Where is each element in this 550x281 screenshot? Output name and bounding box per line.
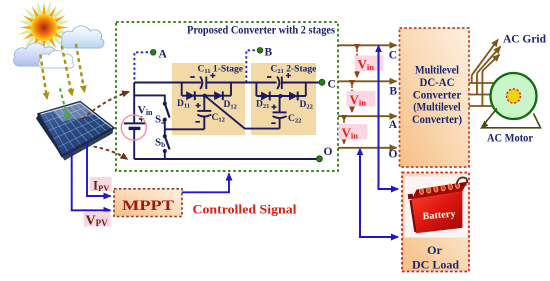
svg-text:B: B [389, 86, 397, 98]
Vin measure arrow B-A [351, 86, 353, 113]
multilevel DC-AC converter box [400, 28, 470, 167]
svg-text:B: B [265, 47, 273, 59]
wire left rail lower segment [133, 129, 135, 159]
wire top rail right segment to node C [282, 82, 322, 84]
blue link node C to battery [379, 47, 399, 190]
line A to inverter [338, 116, 398, 131]
svg-text:DC Load: DC Load [412, 258, 459, 272]
Vin measure arrow C-B [356, 50, 358, 78]
PV voltage wire VPV [72, 150, 111, 210]
svg-text:O: O [324, 146, 333, 158]
svg-text:Or: Or [427, 243, 442, 257]
svg-text:Converter: Converter [413, 89, 462, 101]
irradiance arrow green [60, 88, 68, 119]
wire midpoint to C12 bottom [165, 128, 205, 130]
node A [134, 49, 167, 82]
PV current wire IPV [87, 142, 111, 196]
sun [17, 1, 71, 55]
svg-text:AC Grid: AC Grid [503, 34, 547, 46]
svg-text:DC-AC: DC-AC [420, 77, 455, 89]
diode D22 [289, 92, 298, 101]
wire bottom rail [134, 158, 319, 160]
line O to inverter [338, 148, 398, 161]
capacitor C22 [271, 96, 286, 129]
svg-text:O: O [389, 149, 398, 161]
svg-text:Proposed Converter with 2 stag: Proposed Converter with 2 stages [187, 23, 335, 37]
dashed arrow PV to Vin [83, 92, 130, 119]
battery image [405, 177, 468, 238]
AC grid arrow 2 [477, 47, 501, 74]
wire stage1 diode branch [182, 95, 231, 97]
Vin measure arrow A-O [343, 121, 345, 144]
blue link node O to battery [360, 150, 398, 238]
wire left rail upper segment [133, 83, 135, 124]
svg-text:Converter): Converter) [412, 114, 462, 126]
label Vin 2 [347, 91, 376, 108]
solar panel PV [36, 102, 114, 161]
AC motor [491, 73, 537, 119]
wire stage2 bottom [245, 128, 280, 130]
wire stage1 left drop [181, 83, 183, 96]
node B [246, 47, 272, 82]
node C [319, 79, 336, 91]
switch Sb [163, 134, 170, 159]
wire diagonal M1 to stage2 bottom [205, 96, 245, 129]
label multilevel converter [412, 65, 462, 127]
label VPV [84, 212, 111, 229]
diode D11 [186, 91, 195, 100]
wire switch feed [134, 95, 165, 103]
source Vin battery symbol [121, 115, 146, 140]
wire stage1 right rise [230, 83, 232, 96]
svg-text:A: A [389, 119, 398, 131]
capacitor C21 [267, 73, 291, 89]
stage 2 background [251, 63, 316, 135]
AC grid arrow 1 [472, 40, 498, 76]
svg-text:C11 1-Stage: C11 1-Stage [198, 65, 243, 76]
capacitor C12 [196, 96, 212, 130]
sun ray arrow 1 [40, 55, 47, 99]
label IPV [90, 177, 112, 193]
svg-text:C: C [389, 50, 397, 62]
cloud right [61, 26, 104, 48]
svg-text:C: C [328, 79, 336, 91]
line C to inverter [338, 45, 397, 61]
wire Sa to Sb [164, 120, 166, 137]
svg-text:MPPT: MPPT [122, 198, 174, 214]
svg-text:AC Motor: AC Motor [487, 131, 534, 145]
svg-text:Controlled Signal: Controlled Signal [193, 203, 298, 217]
diode D21 [261, 92, 270, 101]
motor stand [480, 109, 541, 130]
label Vin 3 [339, 124, 368, 141]
wire top rail left segment [134, 82, 201, 84]
MPPT box [114, 189, 182, 217]
junction M1 [203, 94, 207, 98]
svg-text:C21 2-Stage: C21 2-Stage [271, 65, 317, 76]
wire stage2 left drop [255, 83, 257, 97]
converter dashed outline box [116, 22, 338, 171]
junction M2 [278, 94, 282, 98]
svg-text:A: A [159, 49, 168, 61]
stage 1 background [172, 63, 245, 135]
AC grid arrow 3 [482, 55, 499, 72]
svg-text:Multilevel: Multilevel [415, 65, 459, 77]
label Vin 1 [355, 56, 384, 73]
node O [316, 146, 332, 162]
cloud left [14, 43, 58, 66]
capacitor C11 [190, 73, 215, 89]
three-phase line 3 [469, 105, 493, 107]
three-phase line 1 [469, 82, 494, 84]
wire stage2 diode branch [256, 95, 305, 97]
svg-text:(Multilevel: (Multilevel [413, 102, 461, 114]
sun ray arrow 3 [76, 44, 85, 92]
wire top rail middle segment [206, 82, 276, 84]
sun ray arrow 2 [62, 46, 72, 95]
grid tap stubs [472, 71, 483, 106]
switch Sa [163, 102, 170, 122]
diode D12 [214, 91, 223, 100]
cloud small white [39, 51, 74, 69]
battery / DC load box [402, 173, 469, 272]
three-phase line 2 [469, 94, 490, 96]
line B to inverter [338, 81, 397, 97]
wire stage2 right rise [305, 83, 307, 97]
dashed arrow PV to converter bottom [94, 147, 128, 160]
control signal wire [182, 174, 229, 193]
